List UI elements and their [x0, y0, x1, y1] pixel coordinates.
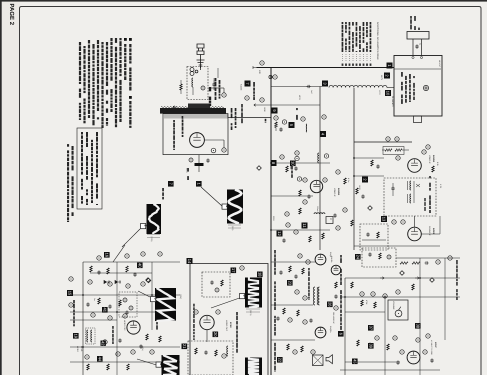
black box 8 on bus [271, 160, 277, 166]
resistor sync R9 [146, 334, 148, 340]
svg-text:21: 21 [182, 344, 187, 349]
svg-text:6AU8A: 6AU8A [337, 188, 340, 196]
black box 26 right [327, 302, 333, 308]
black box 24 [355, 254, 361, 260]
arrow left on y105 wire [254, 104, 258, 107]
wire audio x385 vertical [384, 297, 386, 375]
vert output transformer T2 [314, 287, 316, 305]
resistor R2 vertical [275, 122, 277, 128]
wire IF y246 [354, 245, 440, 247]
test point left column [69, 277, 73, 281]
black box 45 [352, 359, 358, 365]
dashed box lower-left contents [366, 233, 369, 237]
svg-text:1m: 1m [93, 298, 96, 301]
svg-text:PAGE 2: PAGE 2 [8, 4, 15, 26]
svg-text:39: 39 [368, 344, 373, 349]
test points audio row [360, 292, 364, 296]
fine tuning label [173, 120, 175, 122]
black box 21 [182, 344, 188, 350]
black box 1 left of power box [387, 63, 393, 69]
notes table col 4 [96, 132, 98, 136]
resistor R4 [286, 166, 288, 172]
black box 39 [368, 343, 374, 349]
notes text column G [92, 44, 94, 49]
svg-text:4.7m: 4.7m [347, 178, 350, 183]
dashed box lower-left of IF [360, 224, 388, 250]
power transformer box [394, 56, 442, 117]
test point above V2 [422, 150, 426, 154]
svg-text:2: 2 [144, 225, 148, 227]
black box 16 [104, 252, 110, 258]
black box 17 [231, 268, 237, 274]
black box 2 left of power box [384, 73, 390, 79]
wire IF bottom rail [353, 142, 355, 250]
capacitor C13 [279, 271, 282, 275]
waveform photo W6 bottom [245, 358, 262, 375]
capacitor sync C10 [97, 271, 100, 275]
tuner shield hatched bar [160, 108, 226, 114]
black box 3 on bus [322, 81, 328, 87]
svg-text:(22V): (22V) [179, 294, 182, 299]
test point P4 [311, 350, 315, 354]
svg-text:6AU8A: 6AU8A [432, 155, 435, 163]
capacitor C9 [282, 239, 285, 243]
capacitor C1 at tuner right [212, 83, 215, 87]
svg-text:3RD VIDEO IF: 3RD VIDEO IF [332, 312, 335, 325]
waveform photo W3 [155, 288, 176, 321]
black box 19 [73, 333, 79, 339]
sync section top wire [83, 261, 180, 263]
wire diagonal from W1 area [113, 245, 125, 262]
circle test point row mid [392, 220, 396, 224]
svg-text:42: 42 [101, 341, 106, 346]
wire tuner top to antenna line [217, 68, 219, 78]
test points audio row2 [375, 336, 379, 340]
wire y340b [271, 339, 315, 341]
wire audio x345 vertical [344, 278, 346, 375]
note bullet 1 [129, 38, 132, 41]
tube V1 pin circle [211, 148, 216, 153]
label near box 1b [162, 188, 164, 191]
waveform photo W4 [162, 355, 180, 375]
svg-text:SOUND IF: SOUND IF [428, 226, 431, 236]
arrow AGC into tuner [173, 106, 177, 108]
wire y262b [271, 261, 315, 263]
sync vertical wire B [116, 262, 118, 375]
notes text column F [97, 40, 99, 44]
video amp tube V4 [310, 180, 322, 192]
waveform photo W1 [147, 204, 162, 234]
left-edge components x335 [333, 214, 336, 218]
label LV RECT column [231, 108, 233, 113]
svg-text:HORIZ OSC: HORIZ OSC [123, 320, 126, 331]
wire audio y312 [345, 311, 385, 313]
black box feed [168, 181, 174, 187]
test point P2 [295, 290, 299, 294]
capacitor C7 [294, 167, 297, 171]
black box 14 [187, 258, 193, 264]
svg-text:22: 22 [277, 358, 282, 363]
resistor R13 [287, 344, 289, 350]
black box 40 [137, 263, 143, 269]
resistor R5b [299, 208, 301, 214]
wire diagonal to W3 label [138, 291, 150, 297]
filter choke coil L2 [329, 85, 387, 87]
resistor audio Rd [357, 340, 359, 346]
vert out tube V7 [315, 254, 326, 265]
svg-text:180K: 180K [263, 107, 266, 112]
sound takeoff coil [318, 153, 319, 163]
test point K1 [260, 98, 264, 102]
phase det transformer [87, 330, 88, 342]
wire sync y362 [70, 361, 180, 363]
left-edge resistor R3 [344, 178, 346, 184]
svg-text:6: 6 [159, 363, 163, 365]
black box 38 [415, 323, 421, 329]
wire y305b [271, 304, 313, 306]
vert micro labels [274, 250, 276, 254]
label STANDARD COIL [182, 116, 184, 119]
test point Q5 [400, 350, 404, 354]
test point circle below bus [273, 75, 277, 79]
svg-text:18: 18 [257, 272, 262, 277]
wire sync y347 [70, 346, 180, 348]
pilot lamp circle in power box [423, 85, 428, 90]
damper box contents [195, 348, 197, 354]
resistor audio Rc [361, 300, 363, 306]
interlock plug rectangle [407, 32, 429, 40]
wire sync y273 [90, 272, 152, 274]
wire y230 [271, 229, 330, 231]
test points sync row4 [103, 340, 107, 344]
horiz osc tube V5 6CG7 [127, 321, 140, 334]
note bullet 2 [129, 96, 132, 99]
black box 9 [272, 108, 278, 114]
svg-text:20: 20 [213, 332, 218, 337]
IF transformer dashed box T1 [384, 178, 436, 216]
notes text column J [79, 42, 81, 46]
wire bus to filter coil [271, 86, 322, 88]
capacitor sync C11 [86, 303, 89, 307]
black terminal bar under tuner [195, 163, 204, 166]
black box 15 [67, 290, 73, 296]
sync boxlet contents [123, 298, 127, 302]
capacitor audio Ce [396, 361, 399, 365]
black box 4 right [320, 131, 326, 137]
test points sync row1 [97, 256, 101, 260]
test point N1b [295, 151, 299, 155]
volume control pot [395, 310, 402, 317]
waveform W4 label box [156, 362, 161, 367]
sync vertical wire A [82, 262, 84, 375]
tuner chassis inner hatch [164, 114, 166, 119]
waveform W5 label box [240, 294, 245, 299]
test point N3 [286, 223, 290, 227]
IF extra labels x430 [429, 176, 431, 178]
sync dashed boxlet [119, 292, 137, 317]
waveform W2 label box [222, 204, 227, 209]
black box 10a mid [290, 161, 296, 167]
notes text column D [106, 42, 108, 46]
wire audio bottom y370 [340, 369, 440, 371]
wire IF horizontal y158 [354, 157, 384, 159]
notes text column C [110, 38, 112, 41]
IF extra res Rx2 [432, 166, 434, 172]
diamond node D1 [368, 206, 373, 211]
svg-text:4.5 MHZ TO GRID: 4.5 MHZ TO GRID [430, 340, 433, 356]
sync vertical wire C [151, 262, 153, 330]
test point P3 [288, 318, 292, 322]
black box 5 [289, 122, 295, 128]
notes table box [77, 128, 102, 209]
svg-text:38: 38 [415, 324, 420, 329]
mixer tube V1 [190, 133, 205, 148]
wire audio y278 [345, 277, 460, 279]
wire audio y362 [345, 361, 400, 363]
label 13V rail [265, 119, 267, 122]
test point on B+ bus [260, 61, 264, 65]
notes text column E [101, 42, 103, 45]
black box 23 [287, 280, 293, 286]
capacitor inside plug leads [415, 45, 418, 49]
IF extra cap Cx1 [361, 195, 364, 199]
test point N1c [324, 154, 328, 158]
svg-text:44: 44 [97, 357, 102, 362]
test point circle M1 [222, 93, 226, 97]
capacitor sync C12 [118, 339, 121, 343]
black box 1b [196, 181, 202, 187]
volume control box [388, 300, 408, 320]
speaker symbol [326, 355, 332, 364]
arrowheads on y278 [380, 277, 419, 280]
tuner internal coil [192, 78, 193, 87]
diamond node D3 [146, 278, 151, 283]
test point V6 grid [194, 310, 198, 314]
IF extra resistor Rx1 [371, 160, 373, 166]
legend table rows [342, 22, 344, 24]
notes text column B [115, 38, 117, 43]
svg-text:6AU8A: 6AU8A [330, 256, 333, 263]
wire sync y320 [70, 319, 117, 321]
svg-text:45: 45 [352, 359, 357, 364]
audio out tube V8 [315, 327, 326, 338]
label Channel [253, 82, 255, 87]
svg-text:6AW8: 6AW8 [432, 228, 435, 235]
svg-text:23: 23 [287, 281, 292, 286]
test point row y95 [245, 96, 249, 100]
waveform W3 label box [151, 297, 156, 302]
sync micro labels [73, 300, 75, 303]
diode D2 sync [115, 280, 121, 283]
test point P1 [298, 254, 302, 258]
black box 10 left of power box [385, 90, 391, 96]
diode D1 sync [104, 280, 110, 283]
B+ bus horizontal wire [257, 67, 395, 69]
wire tuner bottom lead [198, 155, 200, 163]
svg-text:250mh: 250mh [316, 206, 319, 212]
svg-text:10: 10 [290, 161, 295, 166]
svg-text:10: 10 [386, 91, 391, 96]
wire horizontal y105 [258, 104, 320, 106]
wire tube V1 right [205, 139, 225, 141]
tuner internal circle G1 [201, 86, 205, 90]
svg-text:8: 8 [243, 295, 247, 297]
svg-text:6AQ5A: 6AQ5A [329, 326, 332, 333]
HV cage box outline [190, 264, 268, 375]
svg-text:ADDITIONAL SCHEMATICS PAGE: ADDITIONAL SCHEMATICS PAGE [376, 22, 379, 60]
resistor audio Rb [351, 282, 353, 288]
output transformer box with X [313, 355, 324, 366]
HV cage micro labels [236, 312, 238, 315]
coil L3 vertical [305, 124, 308, 132]
black box 20 [213, 332, 219, 338]
capacitor C14 [276, 317, 279, 321]
IF transformer T1 coils [410, 181, 411, 190]
svg-text:(40V): (40V) [141, 346, 144, 351]
test point Q0 [436, 260, 440, 264]
svg-text:117V: 117V [185, 168, 188, 173]
svg-text:(7.5V): (7.5V) [150, 236, 153, 242]
label AT23 small text [296, 108, 298, 110]
HV dashed sub-box [202, 272, 230, 297]
power box internal divider [394, 68, 441, 70]
black box 11 [302, 223, 308, 229]
resistor R11 [289, 266, 291, 272]
svg-text:140V: 140V [358, 185, 361, 190]
svg-text:16: 16 [104, 253, 109, 258]
waveform photo W5 [245, 278, 262, 308]
svg-text:17: 17 [231, 268, 236, 273]
resistor R12 [283, 308, 285, 314]
svg-text:FILAMENTS: FILAMENTS [391, 96, 394, 107]
test points row y118 [274, 116, 278, 120]
ratio det dashed box A [362, 248, 396, 267]
test point N1d [297, 177, 301, 181]
wire antenna to tuner [200, 66, 202, 70]
test point G2 [386, 137, 390, 141]
IF extra circles [396, 156, 400, 160]
wire sync y295 [70, 294, 180, 296]
diamond node D6 [430, 278, 435, 283]
svg-text:VIDEO IF: VIDEO IF [333, 188, 336, 197]
notes text column H [88, 40, 90, 44]
left strip components [335, 282, 337, 288]
wire audio y297 [340, 296, 460, 298]
wire V3 to transformer [414, 216, 416, 227]
wire W5 pointer diagonal [211, 298, 240, 308]
svg-text:3a: 3a [419, 43, 422, 45]
black box 6 bottom left strip [338, 331, 344, 337]
wire W1 diagonal pointer [122, 229, 140, 247]
label small x292 [291, 166, 293, 170]
black box 13 [381, 216, 387, 222]
small white box F [326, 217, 333, 224]
peaking coil L4 [314, 213, 325, 214]
label KCS66A TUNER [209, 87, 211, 91]
capacitor C8 [307, 195, 310, 199]
audio junction dots [384, 296, 386, 298]
tuner chassis box [163, 114, 228, 155]
black box 22 [277, 357, 283, 363]
audio out tube V9 6CM7 [407, 351, 420, 364]
resistor R5 [299, 190, 301, 196]
diamond node D5 [400, 271, 405, 276]
photofact credit line [67, 144, 69, 147]
wire tuner box to IF bus [228, 117, 271, 119]
wire audio x420 vertical [419, 258, 421, 375]
wire HV internal [190, 309, 230, 311]
svg-text:(55 V): (55 V) [249, 310, 252, 316]
tuner bottom components [189, 158, 193, 162]
svg-text:4.7K: 4.7K [439, 184, 442, 189]
svg-text:6CX8: 6CX8 [229, 322, 232, 328]
wire IF horizontal y176 [354, 175, 384, 177]
black box 41 [102, 307, 108, 313]
test points sync row3 [91, 313, 95, 317]
black box 18 [257, 272, 263, 278]
note bullet 3 [124, 38, 127, 41]
vertical wire from bus x271 [270, 68, 272, 375]
audio micro labels [340, 255, 342, 258]
IF extra labels x425 [424, 198, 425, 201]
svg-text:26: 26 [327, 302, 332, 307]
tuner dashed enclosure [187, 67, 208, 100]
vertical wire x320 [319, 87, 321, 251]
resistor sync R7 [90, 266, 92, 272]
wire audio x445 vertical [444, 258, 446, 340]
svg-text:A1123: A1123 [240, 84, 243, 91]
wire choke to power box [387, 87, 394, 89]
notes table col 2 [86, 132, 88, 137]
black box 42 [101, 341, 106, 346]
resistor sync R10 [87, 364, 89, 370]
black box 44 [97, 356, 103, 362]
resistor R1 tuner left [180, 84, 182, 90]
sync junction dots [82, 294, 84, 296]
label SEE CHASSIS above plug [410, 16, 412, 19]
interlock plug pins [412, 39, 414, 56]
T1 arrows [416, 184, 420, 187]
HV sub-box capacitor [210, 281, 213, 285]
svg-text:40: 40 [137, 263, 142, 268]
test point near box 17 [240, 266, 244, 270]
wire y162 horizontal [277, 162, 331, 164]
svg-text:VIDEO IF: VIDEO IF [428, 155, 431, 164]
black box 12 [277, 231, 283, 237]
test point sync L [85, 355, 89, 359]
svg-text:12K: 12K [258, 70, 261, 74]
sound IF tube V3 6AW8 [408, 227, 422, 241]
svg-text:19: 19 [73, 334, 78, 339]
IF junction dots [353, 157, 355, 159]
ratio det contents [368, 253, 371, 257]
svg-text:VOLUME: VOLUME [392, 301, 395, 310]
wire audio top y258 [396, 257, 460, 259]
T1 trimmer capacitor [391, 187, 394, 191]
antenna input symbol [197, 44, 205, 68]
svg-text:HORIZ OUT: HORIZ OUT [225, 320, 228, 332]
balun coil L1 [190, 68, 194, 72]
svg-text:HI VOLT: HI VOLT [438, 60, 441, 68]
svg-text:5: 5 [154, 298, 158, 300]
wire tuner right [211, 87, 224, 89]
wire sync y312 [70, 311, 160, 313]
svg-text:37: 37 [368, 326, 373, 331]
svg-text:117V: 117V [378, 90, 381, 95]
wire L from x354 to IF [353, 88, 355, 142]
horiz out tube V6 6CX8 [200, 315, 214, 329]
resistor R6 [322, 233, 324, 239]
